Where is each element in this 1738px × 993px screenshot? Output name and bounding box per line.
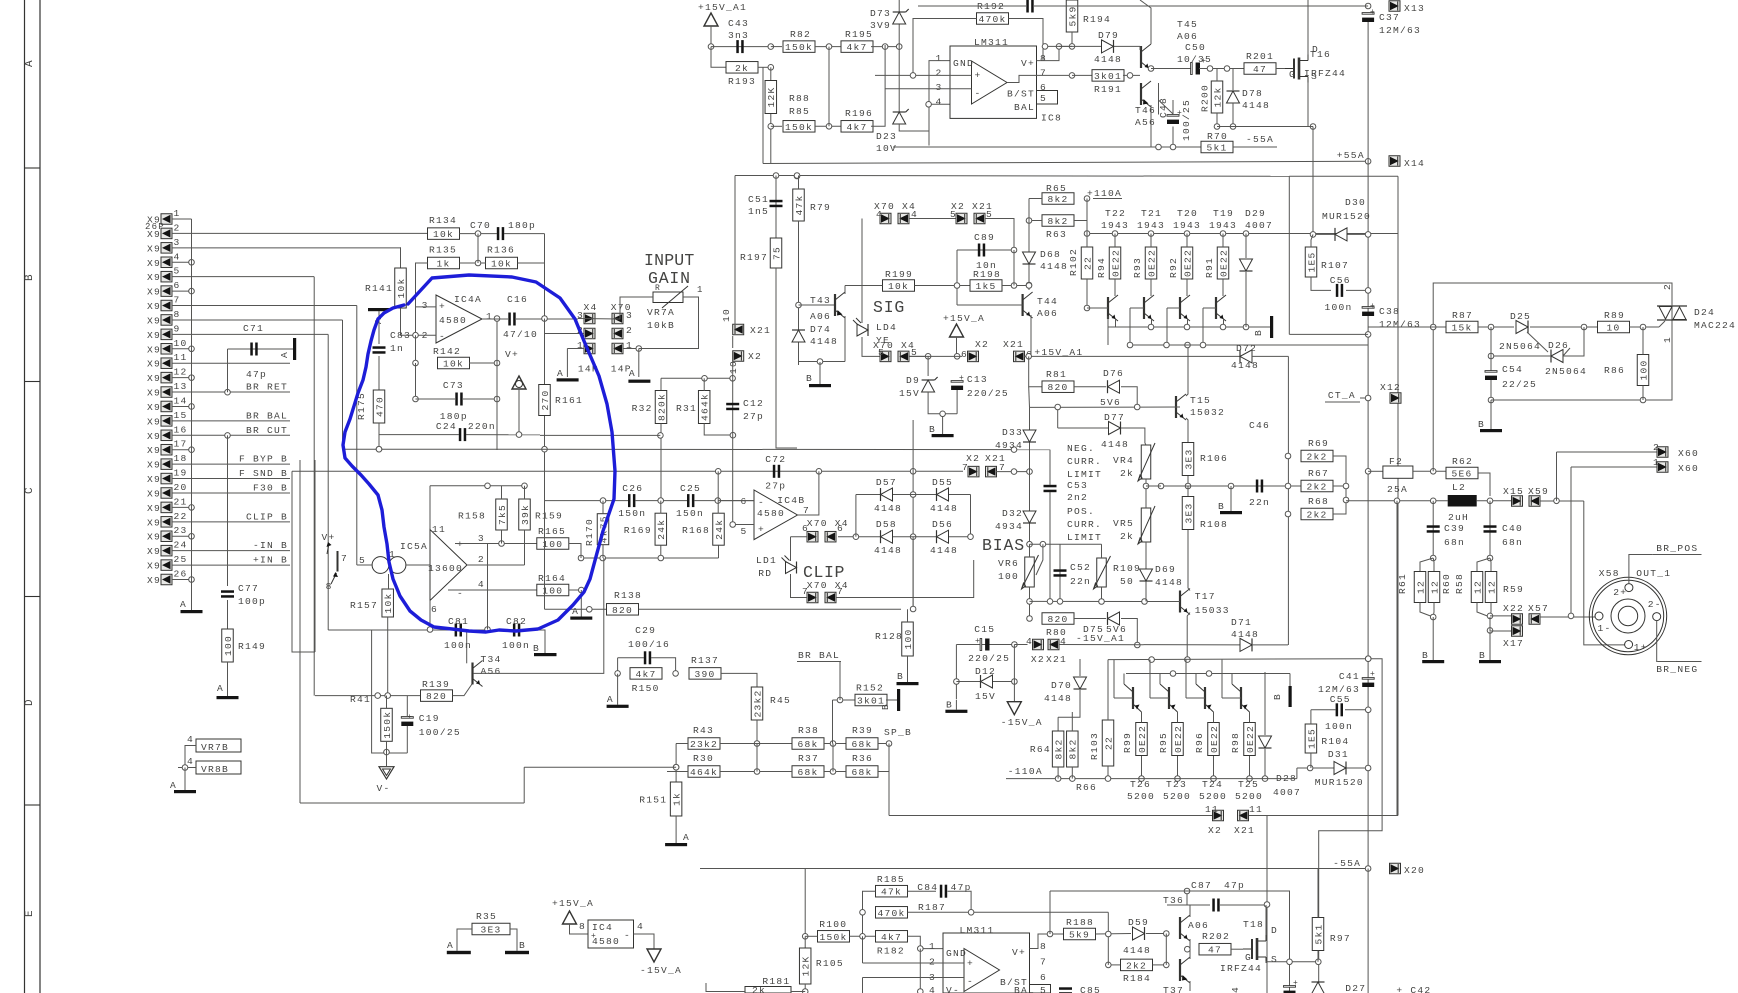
svg-text:R85: R85 (789, 106, 810, 117)
node R61/R60 top (1430, 555, 1436, 561)
node C87 hook (1047, 931, 1053, 937)
IC4 box (588, 920, 634, 948)
wire D33 col (1029, 407, 1031, 544)
wire X4-2 left (545, 333, 585, 335)
wire base drop2 (1129, 308, 1131, 347)
svg-text:14: 14 (174, 395, 188, 406)
svg-text:VR8B: VR8B (201, 764, 229, 775)
resistor R79 47k (793, 189, 805, 221)
svg-text:X13: X13 (1404, 3, 1425, 14)
wire R89-D24 (1629, 326, 1659, 328)
svg-text:X9: X9 (147, 445, 161, 456)
svg-text:T20: T20 (1177, 208, 1198, 219)
wire C41 top row (1319, 659, 1382, 993)
svg-text:A: A (180, 599, 187, 610)
svg-text:SP_B: SP_B (884, 727, 912, 738)
svg-text:T18: T18 (1243, 919, 1264, 930)
diode D30 (1335, 228, 1347, 241)
svg-text:2uH: 2uH (1448, 512, 1469, 523)
svg-text:X59: X59 (1528, 486, 1549, 497)
wire R104 bot (1310, 753, 1312, 768)
resistor R80 820 (1042, 613, 1074, 625)
wire -55A row (893, 146, 1202, 148)
wire T21 emitter (1151, 319, 1153, 327)
wire 5k1 top (1317, 869, 1319, 918)
svg-text:220n: 220n (468, 421, 496, 432)
wire D76 out (1121, 387, 1137, 407)
svg-text:V+: V+ (505, 349, 519, 360)
svg-text:T19: T19 (1213, 208, 1234, 219)
resistor R102 22 (1081, 247, 1093, 279)
wire R87-D25 (1478, 326, 1514, 328)
svg-text:1943: 1943 (1101, 220, 1129, 231)
wire rail x1397 down (1396, 501, 1398, 816)
wire R187 out (908, 911, 1109, 913)
svg-text:68k: 68k (797, 767, 818, 778)
svg-text:4: 4 (876, 209, 883, 220)
resistor R164 100 (537, 584, 569, 596)
IC5A frame y652 stub (300, 651, 315, 653)
svg-text:5k1: 5k1 (1313, 923, 1324, 944)
svg-text:LIMIT: LIMIT (1067, 469, 1102, 480)
svg-text:T36: T36 (1163, 895, 1184, 906)
svg-text:R43: R43 (693, 725, 714, 736)
svg-text:11: 11 (1249, 804, 1263, 815)
wire T45 base (1123, 74, 1140, 76)
wire X9 pin 14 stub (172, 405, 189, 407)
node pin13 tap (225, 389, 231, 395)
node y407 a (1055, 404, 1061, 410)
wire R31 bot (704, 424, 733, 436)
svg-text:R108: R108 (1200, 519, 1228, 530)
wire R184 out (1153, 964, 1167, 966)
wire D24 term2 (1671, 283, 1673, 306)
resistor R201 47 (1244, 63, 1276, 75)
wire y816 long b (1248, 815, 1398, 817)
wire pin1-pin4 tie (929, 61, 950, 146)
svg-text:0E22: 0E22 (1173, 725, 1184, 753)
connector X15 (1512, 496, 1523, 507)
svg-text:R91: R91 (1204, 257, 1215, 278)
svg-text:6: 6 (802, 523, 809, 534)
wire -in drop (415, 335, 417, 363)
svg-text:X9: X9 (147, 315, 161, 326)
resistor R107 1E5 (1305, 247, 1317, 277)
svg-text:B: B (1253, 329, 1264, 336)
svg-text:B/ST: B/ST (1007, 89, 1035, 100)
wire IC4B +in (733, 524, 754, 526)
svg-text:B: B (806, 373, 813, 384)
connector X57 (1529, 614, 1540, 625)
wire D59 row (1096, 933, 1132, 936)
svg-text:D12: D12 (975, 666, 996, 677)
resistor R138 820 (607, 604, 639, 616)
node +15va1 (1026, 354, 1032, 360)
node y471 IC4B out (816, 469, 822, 475)
svg-text:R82: R82 (790, 29, 811, 40)
wire C54 col (1490, 327, 1492, 371)
capacitor C77 100p (221, 590, 234, 593)
wire C71 riser (227, 349, 229, 392)
svg-text:BR RET: BR RET (246, 382, 288, 393)
wire T45-T46 emitters (1151, 69, 1159, 71)
wire R181 out (791, 991, 805, 993)
svg-text:X2: X2 (975, 339, 989, 350)
svg-text:7: 7 (1040, 68, 1047, 79)
wire R200 top (1216, 69, 1218, 82)
wire R100 in (805, 935, 817, 937)
wire R95 bot (1177, 712, 1179, 723)
wire out emitter rail (1151, 68, 1192, 70)
node y471 b (1027, 469, 1033, 475)
node 7k5 bot (499, 541, 505, 547)
capacitor C54 22/25 (1485, 371, 1497, 373)
svg-text:150n: 150n (676, 508, 704, 519)
wire X9 pin 7 net (172, 305, 357, 307)
wire D25-R89 (1530, 326, 1598, 328)
wire R32 bot (660, 424, 662, 501)
node y176 a (773, 173, 779, 179)
wire C71 row (228, 348, 294, 350)
wire R41 bot (386, 741, 388, 766)
svg-text:LM311: LM311 (960, 925, 995, 936)
svg-text:+: + (591, 932, 596, 941)
wire pin9 drop (327, 334, 329, 630)
wire y803 row (300, 802, 524, 804)
node D59 out (1164, 931, 1170, 937)
node bus-R102 (1084, 231, 1090, 237)
svg-text:390: 390 (694, 669, 715, 680)
diode D25 (1516, 321, 1528, 334)
wire pin7 drop (356, 306, 358, 566)
svg-text:5: 5 (740, 526, 747, 537)
node lbus3 (1220, 324, 1226, 330)
resistor R199 10k (883, 280, 915, 292)
wire -15va col (1013, 645, 1015, 702)
node frame R41 (384, 749, 390, 755)
capacitor C73 180p (455, 393, 458, 406)
connector X70-7 (807, 592, 818, 603)
svg-text:D9: D9 (906, 375, 920, 386)
svg-text:12M/63: 12M/63 (1379, 25, 1421, 36)
svg-text:T37: T37 (1163, 985, 1184, 993)
wire D77 right (1121, 428, 1145, 443)
resistor R37 68k (792, 766, 824, 778)
resistor R200 12k (1211, 81, 1223, 113)
wire R32 top (660, 378, 662, 391)
svg-text:470k: 470k (978, 14, 1006, 25)
wire VR mid link (1146, 485, 1161, 487)
wire R201-gate (1276, 68, 1293, 70)
wire D72 out (1252, 355, 1288, 357)
svg-text:D70: D70 (1051, 680, 1072, 691)
svg-text:100/25: 100/25 (419, 727, 461, 738)
svg-text:D58: D58 (876, 519, 897, 530)
wire D12 row (956, 681, 1014, 683)
wire T34 emitter up (466, 630, 468, 663)
svg-text:D32: D32 (1002, 508, 1023, 519)
svg-text:4: 4 (1060, 636, 1067, 647)
wire C48 vertical (1172, 127, 1174, 148)
resistor R94 0E22 (1109, 247, 1121, 279)
svg-text:22: 22 (174, 511, 188, 522)
wire T43-R199 (845, 285, 883, 287)
node y471 x913 (910, 469, 916, 475)
wire pin3 riser (400, 247, 402, 268)
wire R135 left (416, 263, 429, 335)
wire R102 bot (1086, 279, 1088, 308)
resistor R43 23k2 (688, 738, 720, 750)
capacitor C16 47/10 (508, 313, 511, 326)
svg-text:R67: R67 (1308, 468, 1329, 479)
svg-text:R30: R30 (693, 753, 714, 764)
resistor R149 100 (222, 629, 234, 662)
svg-text:X9: X9 (147, 243, 161, 254)
op-amp U-IC8 triangle (972, 61, 1008, 104)
node R142 right (494, 360, 500, 366)
wire X9 pin 18 net (172, 463, 290, 465)
wire rail x1308 top (1307, 0, 1309, 54)
svg-text:C52: C52 (1070, 562, 1091, 573)
node y557 b (658, 555, 664, 561)
wire R30 left (667, 771, 688, 773)
IC8 LM311 box (950, 46, 1037, 118)
svg-text:A: A (217, 683, 224, 694)
wire VR gnd (184, 768, 186, 791)
connector X21-7 (986, 466, 997, 477)
resistor R97b 5k1 (1312, 918, 1324, 951)
node y378 b (730, 376, 736, 382)
wire X9 pin 15 net (172, 420, 290, 422)
capacitor C51 1n5 (770, 200, 783, 203)
resistor R187 470k (876, 907, 908, 919)
resistor R31 464k (698, 391, 710, 424)
svg-text:4007: 4007 (1273, 787, 1301, 798)
wire IC5A out6 (429, 601, 431, 630)
svg-text:68n: 68n (1444, 537, 1465, 548)
diode D55 4148 (937, 488, 949, 501)
svg-text:1n: 1n (390, 343, 404, 354)
resistor R45 23k2 (751, 687, 763, 720)
svg-text:R102: R102 (1068, 248, 1079, 276)
svg-text:A: A (572, 606, 579, 617)
resistor R95 0E22 (1172, 723, 1184, 756)
wire R139-T34 (453, 684, 472, 696)
wire X9 pin 20 net (172, 492, 290, 494)
wire gnd stub X70 (638, 349, 640, 378)
resistor R135 1k (428, 257, 460, 269)
wire D28 col (1264, 672, 1266, 735)
svg-text:BR CUT: BR CUT (246, 425, 288, 436)
svg-text:16: 16 (174, 424, 188, 435)
wire LD1 top link (791, 536, 808, 538)
wire BR BAL drop (839, 662, 841, 701)
wire R99 bot2 (1141, 756, 1143, 779)
wire pin9 link (328, 629, 371, 631)
svg-text:R106: R106 (1200, 453, 1228, 464)
connector X2-6 (968, 351, 979, 362)
node C16 out (542, 316, 548, 322)
transistor T24 (1204, 687, 1206, 709)
svg-text:MUR1520: MUR1520 (1315, 777, 1364, 788)
capacitor C12 27p (726, 403, 739, 406)
wire lower busA (1108, 658, 1368, 661)
wire R151 bot (675, 816, 677, 835)
svg-text:+IN B: +IN B (253, 555, 288, 566)
diode D74 4148 (792, 330, 805, 342)
svg-text:2: 2 (626, 325, 633, 336)
svg-text:19: 19 (174, 468, 188, 479)
wire C15-X2 link (1014, 644, 1027, 646)
wire R85-R196 (815, 125, 843, 127)
svg-text:D: D (1271, 925, 1278, 936)
IC5A section frame2 (314, 460, 316, 652)
wire out down (1584, 501, 1629, 645)
svg-text:8k2: 8k2 (1054, 738, 1065, 759)
wire T19 emitter (1223, 319, 1225, 327)
svg-text:820: 820 (612, 605, 633, 616)
diode D57 4148 (881, 488, 893, 501)
wire pin3 bot row (863, 977, 965, 979)
node R86 bot (1640, 397, 1646, 403)
wire R35 left (457, 929, 472, 951)
diode D12 15V (981, 675, 993, 688)
wire R169 bot (660, 545, 662, 558)
resistor R202 47 (1199, 943, 1231, 955)
wire D70 bot (1058, 690, 1080, 717)
resistor R65 8k2 (1042, 193, 1074, 205)
node R30 left (673, 764, 679, 770)
node D73 line (896, 44, 902, 50)
wire R58 bracket top2 (1490, 558, 1491, 571)
svg-text:25A: 25A (1387, 484, 1408, 495)
wire R196 out (871, 45, 885, 126)
svg-text:12K: 12K (801, 955, 812, 976)
svg-text:2k2: 2k2 (1306, 482, 1327, 493)
capacitor C29 100/16 (644, 651, 647, 664)
svg-text:2n2: 2n2 (1067, 492, 1088, 503)
svg-text:-: - (439, 331, 445, 342)
node R95 bot (1175, 776, 1181, 782)
svg-text:C77: C77 (238, 583, 259, 594)
svg-text:4: 4 (929, 985, 936, 993)
wire bus left drop (1086, 199, 1088, 234)
wire R105 stub (804, 936, 806, 948)
svg-text:3E3: 3E3 (480, 925, 501, 936)
svg-text:100: 100 (542, 539, 563, 550)
wire C77 riser (227, 435, 229, 586)
svg-text:2N5064: 2N5064 (1499, 341, 1541, 352)
node pin1 node (918, 946, 924, 952)
wire R138 row (545, 608, 902, 610)
svg-text:T45: T45 (1177, 19, 1198, 30)
svg-text:R32: R32 (632, 403, 653, 414)
node R200 top node (1224, 66, 1230, 72)
wire R168 bot (718, 545, 720, 558)
resistor R165 100 (537, 538, 569, 550)
svg-text:10kB: 10kB (647, 320, 675, 331)
wire R128 bot (907, 656, 909, 674)
svg-text:T44: T44 (1037, 296, 1058, 307)
svg-text:12: 12 (174, 367, 188, 378)
wire X2-10 down (732, 361, 734, 378)
wire R61 bracket bot (1420, 603, 1433, 618)
svg-text:X20: X20 (1404, 865, 1425, 876)
wire T46 base col (1158, 83, 1160, 115)
diode D56 4148 (937, 530, 949, 543)
svg-text:C48: C48 (1158, 97, 1169, 118)
wire X4-1 gnd (567, 348, 584, 350)
svg-text:G: G (1289, 69, 1296, 80)
svg-text:470: 470 (374, 396, 385, 417)
svg-text:11: 11 (1205, 804, 1219, 815)
capacitor C72 27p (773, 465, 776, 478)
wire base rail3 (1167, 307, 1180, 309)
node R87 left (1430, 324, 1436, 330)
wire VR4-VR5 link (1145, 479, 1147, 508)
svg-text:0E22: 0E22 (1137, 725, 1148, 753)
wire C51 col (775, 176, 777, 241)
node X12 junction (1365, 395, 1371, 401)
wire D23 bottom (899, 124, 928, 131)
svg-text:X9: X9 (147, 258, 161, 269)
svg-text:BR BAL: BR BAL (246, 410, 288, 421)
transistor T22 (1107, 297, 1109, 319)
resistor R38 68k (792, 738, 824, 750)
capacitor C48 100/25 (1167, 115, 1179, 117)
resistor R198 1k5 (970, 280, 1002, 292)
wire C89-T44 (1013, 250, 1015, 286)
svg-text:2k: 2k (1120, 531, 1134, 542)
svg-text:10: 10 (174, 338, 188, 349)
svg-text:2k2: 2k2 (1306, 510, 1327, 521)
svg-text:0E22: 0E22 (1182, 249, 1193, 277)
wire R58 bracket bot (1477, 603, 1490, 618)
wire C83-R175 (378, 356, 380, 390)
svg-text:D25: D25 (1510, 311, 1531, 322)
svg-text:C71: C71 (243, 323, 264, 334)
svg-text:D71: D71 (1231, 617, 1252, 628)
svg-text:10: 10 (721, 308, 732, 322)
svg-text:D30: D30 (1345, 197, 1366, 208)
svg-text:R157: R157 (350, 600, 378, 611)
svg-text:F BYP B: F BYP B (239, 454, 288, 465)
svg-text:2k: 2k (752, 985, 766, 993)
svg-text:R197: R197 (740, 252, 768, 263)
svg-text:5200: 5200 (1127, 791, 1155, 802)
node pin1/4 tie (926, 102, 932, 108)
svg-text:C39: C39 (1444, 523, 1465, 534)
svg-text:12: 12 (1486, 580, 1497, 594)
connector X13 (1389, 1, 1400, 12)
transistor T36 (1179, 917, 1181, 939)
connector X4-5 (898, 351, 909, 362)
capacitor C89 10n (978, 244, 981, 257)
svg-text:X9: X9 (147, 416, 161, 427)
wire X9 pin 25 net (172, 564, 290, 566)
wire D78 bot (1232, 103, 1234, 127)
svg-text:+: + (1370, 670, 1375, 679)
wire X9 pin 3 net (172, 247, 401, 249)
wire R58 bracket bot2 (1490, 603, 1491, 618)
resistor R168 24k (713, 513, 725, 545)
wire R128 top stub (907, 609, 909, 622)
capacitor C24 220n (459, 428, 462, 441)
node rail-L2 b (1430, 498, 1436, 504)
wire T43 collector (844, 286, 846, 295)
wire T18 drain (1265, 905, 1267, 935)
svg-text:BAL: BAL (1014, 102, 1035, 113)
